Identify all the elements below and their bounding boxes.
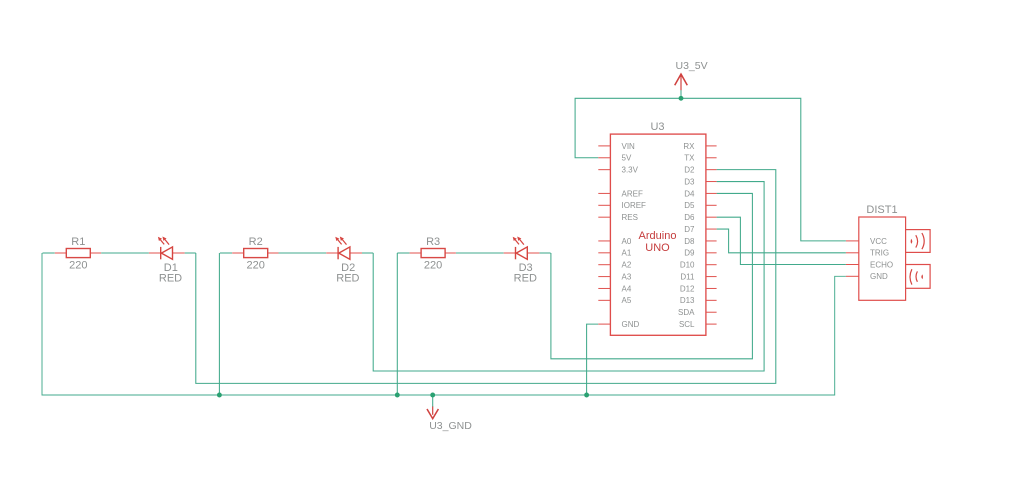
svg-text:R1: R1 — [71, 236, 85, 248]
U3 pin RES — [598, 216, 610, 218]
U3 pin IOREF — [598, 204, 610, 206]
svg-text:3.3V: 3.3V — [622, 166, 639, 175]
svg-text:AREF: AREF — [622, 189, 643, 198]
svg-text:A1: A1 — [622, 249, 632, 258]
svg-text:SCL: SCL — [679, 320, 695, 329]
svg-text:A4: A4 — [622, 284, 632, 293]
svg-text:R3: R3 — [426, 236, 440, 248]
svg-text:VIN: VIN — [622, 142, 636, 151]
LED D3 cathode bar — [515, 247, 517, 259]
wire R3 left lead to GND rail corner — [397, 252, 409, 254]
wire R2 to D2 — [279, 252, 327, 254]
U3 pin D12 — [706, 287, 717, 289]
svg-text:D6: D6 — [684, 213, 695, 222]
U3 pin VIN — [598, 145, 610, 147]
svg-text:D8: D8 — [684, 237, 695, 246]
U3 pin D4 — [706, 192, 717, 194]
LED D2 cathode bar — [337, 247, 339, 259]
svg-text:RED: RED — [336, 273, 359, 285]
wire R3 to D3 — [456, 252, 504, 254]
resistor R1 body — [66, 249, 90, 258]
LED D2 triangle — [339, 247, 350, 259]
svg-text:U3: U3 — [650, 121, 664, 133]
wire D2 to D1 cathode net — [196, 170, 776, 384]
node U3_5V junction — [679, 96, 684, 101]
resistor R3 left pin stub — [410, 252, 422, 254]
resistor R2 left pin stub — [232, 252, 244, 254]
wire D4 to D3 cathode net — [551, 193, 753, 358]
svg-text:D11: D11 — [680, 272, 695, 281]
svg-text:RED: RED — [514, 273, 537, 285]
DIST1 pin TRIG — [846, 252, 859, 254]
DIST1 pin VCC — [846, 240, 859, 242]
svg-text:220: 220 — [247, 260, 265, 272]
resistor R1 left pin stub — [55, 252, 67, 254]
svg-text:A5: A5 — [622, 296, 632, 305]
power symbol U3_5V arrow — [680, 74, 682, 90]
wire U3 GND pin to rail — [587, 324, 599, 395]
LED D3 emission arrow 1 — [515, 240, 519, 245]
resistor R3 right pin stub — [445, 252, 456, 254]
wire D3 lead to cathode net — [539, 252, 550, 254]
wire D7 to DIST1 TRIG — [717, 229, 846, 253]
svg-text:TRIG: TRIG — [870, 249, 889, 258]
svg-text:RES: RES — [622, 213, 638, 222]
svg-text:D7: D7 — [684, 225, 695, 234]
DIST1 pin GND — [846, 275, 859, 277]
U3 pin SCL — [706, 323, 717, 325]
resistor R1 right pin stub — [90, 252, 101, 254]
wire D1 lead to cathode net — [185, 252, 196, 254]
wire U3_5V symbol stem — [680, 90, 682, 99]
LED D2 cathode pin stub — [326, 252, 338, 254]
DIST1 receiver transducer box — [906, 265, 931, 289]
U3 pin D7 — [706, 228, 717, 230]
svg-text:DIST1: DIST1 — [866, 204, 897, 216]
svg-text:D3: D3 — [684, 177, 695, 186]
DIST1 transmitter transducer box — [906, 230, 931, 253]
wire U3_GND symbol stem — [432, 395, 434, 407]
U3 pin D2 — [706, 169, 717, 171]
node GND junction at R3 branch — [395, 393, 400, 398]
LED D2 emission arrow 2 — [342, 240, 346, 245]
svg-text:RED: RED — [159, 273, 182, 285]
ground symbol U3_GND arrow — [432, 407, 434, 415]
wire D3 to D2 cathode net — [373, 182, 764, 371]
U3 pin A4 — [598, 287, 610, 289]
svg-text:U3_5V: U3_5V — [676, 60, 708, 72]
LED D1 anode pin stub — [173, 252, 185, 254]
DIST1 receiver wave symbol — [910, 269, 912, 284]
svg-text:ECHO: ECHO — [870, 260, 893, 269]
svg-text:A2: A2 — [622, 261, 632, 270]
U3 pin 3.3V — [598, 169, 610, 171]
U3 pin D11 — [706, 276, 717, 278]
U3 pin A1 — [598, 252, 610, 254]
LED D3 anode pin stub — [527, 252, 539, 254]
svg-text:D4: D4 — [684, 189, 695, 198]
svg-text:UNO: UNO — [645, 242, 670, 254]
DIST1 transmitter wave symbol — [911, 239, 913, 244]
U3 pin SDA — [706, 311, 717, 313]
ultrasonic distance sensor DIST1 body — [859, 217, 906, 300]
U3 pin D13 — [706, 299, 717, 301]
node GND junction at U3_GND symbol — [430, 393, 435, 398]
wire D6 to DIST1 ECHO — [717, 217, 846, 264]
U3 pin D5 — [706, 204, 717, 206]
LED D2 anode pin stub — [350, 252, 362, 254]
DIST1 pin ECHO — [846, 264, 859, 266]
U3 pin A2 — [598, 264, 610, 266]
wire R2 left lead to GND rail corner — [220, 252, 232, 254]
svg-text:R2: R2 — [249, 236, 263, 248]
svg-text:D10: D10 — [680, 261, 695, 270]
U3 pin RX — [706, 145, 717, 147]
LED D2 emission arrow 1 — [338, 240, 342, 245]
svg-text:D2: D2 — [684, 166, 695, 175]
LED D1 emission arrow 2 — [165, 240, 169, 245]
wire R1 to D1 — [101, 252, 149, 254]
svg-text:VCC: VCC — [870, 237, 887, 246]
U3 pin A0 — [598, 240, 610, 242]
svg-text:220: 220 — [69, 260, 87, 272]
LED D3 cathode pin stub — [504, 252, 516, 254]
node GND junction at U3 GND pin wire — [584, 393, 589, 398]
U3 pin GND — [598, 323, 610, 325]
U3 pin 5V — [598, 157, 610, 159]
svg-text:GND: GND — [622, 320, 640, 329]
wire GND rail: R1 to bottom rail to DIST1 GND — [42, 253, 846, 395]
svg-text:A3: A3 — [622, 272, 632, 281]
svg-text:TX: TX — [684, 154, 695, 163]
LED D1 cathode bar — [160, 247, 162, 259]
wire D2 lead to cathode net — [362, 252, 373, 254]
wire 5V net: U3 5V pin to U3_5V rail to DIST1 VCC — [575, 98, 846, 241]
svg-text:5V: 5V — [622, 154, 632, 163]
svg-text:Arduino: Arduino — [639, 230, 677, 242]
svg-text:D12: D12 — [680, 284, 695, 293]
LED D1 cathode pin stub — [149, 252, 161, 254]
wire R1 left lead to GND rail corner — [43, 252, 55, 254]
LED D1 triangle — [161, 247, 172, 259]
U3 pin D6 — [706, 216, 717, 218]
U3 pin D8 — [706, 240, 717, 242]
svg-text:A0: A0 — [622, 237, 632, 246]
wire R2 branch to GND rail — [218, 253, 220, 395]
resistor R2 right pin stub — [268, 252, 279, 254]
microcontroller U3 body (Arduino UNO) — [610, 134, 706, 335]
resistor R3 body — [421, 249, 445, 258]
wire R3 branch to GND rail — [396, 253, 398, 395]
U3 pin D3 — [706, 181, 717, 183]
LED D3 triangle — [516, 247, 527, 259]
svg-text:RX: RX — [683, 142, 695, 151]
LED D1 emission arrow 1 — [161, 240, 165, 245]
svg-text:D5: D5 — [684, 201, 695, 210]
svg-text:D13: D13 — [680, 296, 695, 305]
U3 pin AREF — [598, 192, 610, 194]
LED D3 emission arrow 2 — [520, 240, 524, 245]
svg-text:GND: GND — [870, 272, 888, 281]
resistor R2 body — [244, 249, 268, 258]
U3 pin D9 — [706, 252, 717, 254]
U3 pin A3 — [598, 276, 610, 278]
U3 pin TX — [706, 157, 717, 159]
svg-text:220: 220 — [424, 260, 442, 272]
U3 pin D10 — [706, 264, 717, 266]
svg-text:D9: D9 — [684, 249, 695, 258]
U3 pin A5 — [598, 299, 610, 301]
svg-text:SDA: SDA — [678, 308, 695, 317]
svg-text:U3_GND: U3_GND — [429, 420, 472, 432]
node GND junction at R2 branch — [217, 393, 222, 398]
svg-text:IOREF: IOREF — [622, 201, 647, 210]
